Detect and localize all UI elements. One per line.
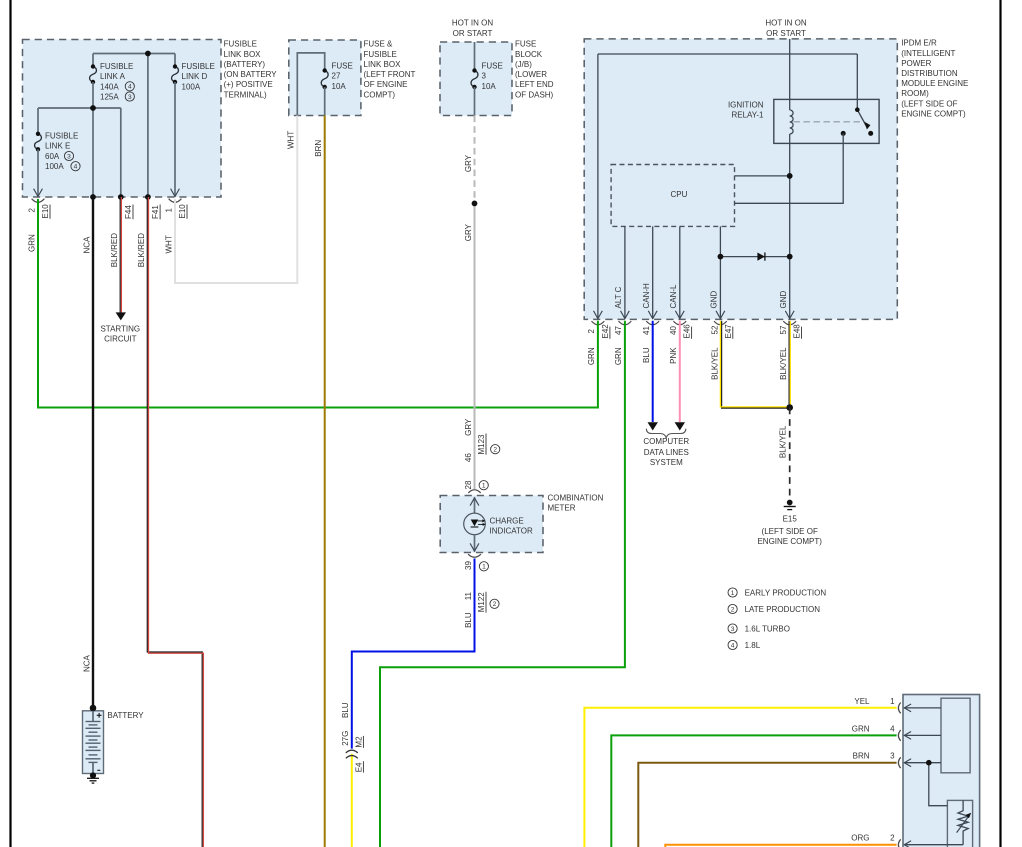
svg-text:BLU: BLU bbox=[464, 612, 473, 628]
svg-text:E10: E10 bbox=[178, 204, 187, 219]
svg-text:LATE PRODUCTION: LATE PRODUCTION bbox=[745, 605, 821, 614]
svg-text:4: 4 bbox=[128, 84, 132, 91]
svg-text:LINK A: LINK A bbox=[100, 72, 126, 81]
svg-text:4: 4 bbox=[890, 724, 895, 733]
svg-text:ENGINE COMPT): ENGINE COMPT) bbox=[901, 109, 966, 118]
svg-text:INDICATOR: INDICATOR bbox=[490, 527, 533, 536]
svg-text:BLU: BLU bbox=[341, 702, 350, 718]
svg-text:FUSIBLE: FUSIBLE bbox=[364, 50, 397, 59]
svg-text:39: 39 bbox=[464, 561, 473, 570]
svg-text:3: 3 bbox=[67, 153, 71, 160]
svg-text:TERMINAL): TERMINAL) bbox=[224, 90, 267, 99]
svg-text:DISTRIBUTION: DISTRIBUTION bbox=[901, 69, 958, 78]
svg-text:2: 2 bbox=[493, 447, 497, 454]
svg-text:FUSIBLE: FUSIBLE bbox=[100, 62, 133, 71]
svg-text:57: 57 bbox=[779, 325, 788, 334]
svg-text:40: 40 bbox=[669, 326, 678, 335]
svg-text:27: 27 bbox=[332, 72, 341, 81]
svg-text:SYSTEM: SYSTEM bbox=[650, 458, 683, 467]
svg-text:E47: E47 bbox=[724, 324, 733, 339]
svg-text:LINK BOX: LINK BOX bbox=[364, 60, 402, 69]
svg-text:100A: 100A bbox=[182, 82, 201, 91]
svg-text:GRY: GRY bbox=[464, 223, 473, 241]
svg-text:1: 1 bbox=[890, 697, 895, 706]
svg-text:10A: 10A bbox=[482, 82, 497, 91]
svg-text:ENGINE COMPT): ENGINE COMPT) bbox=[757, 537, 822, 546]
svg-text:CIRCUIT: CIRCUIT bbox=[104, 334, 137, 343]
svg-text:(INTELLIGENT: (INTELLIGENT bbox=[901, 49, 955, 58]
svg-text:CHARGE: CHARGE bbox=[490, 517, 524, 526]
svg-text:MODULE ENGINE: MODULE ENGINE bbox=[901, 79, 968, 88]
svg-text:(+) POSITIVE: (+) POSITIVE bbox=[224, 80, 273, 89]
svg-text:11: 11 bbox=[464, 591, 473, 600]
svg-text:3: 3 bbox=[128, 94, 132, 101]
svg-text:BRN: BRN bbox=[314, 140, 323, 157]
svg-text:COMPUTER: COMPUTER bbox=[643, 437, 689, 446]
svg-text:LINK D: LINK D bbox=[182, 72, 208, 81]
svg-text:E10: E10 bbox=[41, 204, 50, 219]
svg-text:1: 1 bbox=[164, 208, 173, 213]
svg-text:3: 3 bbox=[731, 626, 735, 633]
svg-text:BLK/YEL: BLK/YEL bbox=[710, 347, 719, 380]
svg-text:OF ENGINE: OF ENGINE bbox=[364, 80, 408, 89]
svg-text:10A: 10A bbox=[332, 82, 347, 91]
svg-text:BLOCK: BLOCK bbox=[515, 50, 543, 59]
svg-text:2: 2 bbox=[731, 606, 735, 613]
svg-text:GRN: GRN bbox=[587, 347, 596, 365]
svg-text:CPU: CPU bbox=[671, 190, 688, 199]
svg-text:OR START: OR START bbox=[766, 29, 806, 38]
svg-text:60A: 60A bbox=[45, 152, 60, 161]
svg-text:46: 46 bbox=[464, 453, 473, 462]
svg-text:2: 2 bbox=[890, 834, 895, 843]
svg-text:ROOM): ROOM) bbox=[901, 89, 929, 98]
svg-text:27G: 27G bbox=[341, 731, 350, 746]
svg-text:4: 4 bbox=[74, 164, 78, 171]
svg-text:(BATTERY): (BATTERY) bbox=[224, 60, 266, 69]
svg-text:GRY: GRY bbox=[464, 418, 473, 436]
svg-text:F44: F44 bbox=[124, 205, 133, 219]
svg-text:GRN: GRN bbox=[27, 234, 36, 252]
svg-text:E15: E15 bbox=[783, 515, 798, 524]
svg-text:1: 1 bbox=[731, 590, 735, 597]
svg-text:41: 41 bbox=[642, 326, 651, 335]
svg-text:1: 1 bbox=[482, 564, 486, 571]
svg-text:52: 52 bbox=[710, 325, 719, 334]
svg-text:BLU: BLU bbox=[642, 347, 651, 363]
svg-text:YEL: YEL bbox=[854, 697, 870, 706]
svg-text:BATTERY: BATTERY bbox=[107, 711, 144, 720]
svg-text:BLK/YEL: BLK/YEL bbox=[779, 347, 788, 380]
svg-text:100A: 100A bbox=[45, 162, 64, 171]
svg-text:(LEFT SIDE OF: (LEFT SIDE OF bbox=[901, 99, 957, 108]
svg-text:1.8L: 1.8L bbox=[745, 641, 761, 650]
svg-text:POWER: POWER bbox=[901, 59, 931, 68]
svg-text:GND: GND bbox=[710, 291, 719, 309]
svg-text:FUSIBLE: FUSIBLE bbox=[224, 40, 257, 49]
svg-text:METER: METER bbox=[548, 504, 576, 513]
svg-text:LINK BOX: LINK BOX bbox=[224, 50, 262, 59]
svg-text:NCA: NCA bbox=[82, 654, 91, 672]
svg-text:COMBINATION: COMBINATION bbox=[548, 494, 604, 503]
svg-text:BLK/RED: BLK/RED bbox=[110, 233, 119, 267]
svg-text:FUSIBLE: FUSIBLE bbox=[45, 131, 78, 140]
svg-text:1: 1 bbox=[482, 483, 486, 490]
svg-text:125A: 125A bbox=[100, 93, 119, 102]
svg-text:M123: M123 bbox=[477, 434, 486, 455]
svg-text:1.6L TURBO: 1.6L TURBO bbox=[745, 624, 790, 633]
svg-text:4: 4 bbox=[731, 642, 735, 649]
svg-text:BLK/YEL: BLK/YEL bbox=[778, 425, 787, 458]
svg-text:FUSIBLE: FUSIBLE bbox=[182, 62, 215, 71]
svg-text:3: 3 bbox=[482, 72, 487, 81]
svg-text:FUSE: FUSE bbox=[515, 40, 536, 49]
svg-text:(J/B): (J/B) bbox=[515, 60, 532, 69]
svg-text:M122: M122 bbox=[477, 592, 486, 613]
svg-text:OF DASH): OF DASH) bbox=[515, 90, 554, 99]
svg-text:E4: E4 bbox=[354, 762, 363, 772]
svg-text:2: 2 bbox=[587, 329, 596, 334]
svg-text:BRN: BRN bbox=[853, 752, 870, 761]
svg-text:E48: E48 bbox=[793, 324, 802, 339]
svg-text:ALT C: ALT C bbox=[614, 286, 623, 308]
svg-text:FUSE &: FUSE & bbox=[364, 40, 394, 49]
svg-text:47: 47 bbox=[614, 326, 623, 335]
svg-text:ORG: ORG bbox=[851, 834, 869, 843]
svg-text:STARTING: STARTING bbox=[100, 324, 140, 333]
svg-text:140A: 140A bbox=[100, 82, 119, 91]
svg-text:WHT: WHT bbox=[164, 235, 173, 253]
svg-text:E42: E42 bbox=[601, 324, 610, 339]
svg-text:28: 28 bbox=[464, 480, 473, 489]
svg-text:2: 2 bbox=[27, 208, 36, 213]
svg-text:GND: GND bbox=[779, 291, 788, 309]
svg-text:BLK/RED: BLK/RED bbox=[137, 233, 146, 267]
svg-text:NCA: NCA bbox=[82, 236, 91, 254]
svg-text:F41: F41 bbox=[151, 205, 160, 219]
svg-text:(LEFT FRONT: (LEFT FRONT bbox=[364, 70, 416, 79]
svg-text:HOT IN ON: HOT IN ON bbox=[452, 19, 493, 28]
svg-text:GRN: GRN bbox=[852, 724, 870, 733]
svg-text:M2: M2 bbox=[354, 736, 363, 748]
svg-text:IGNITION: IGNITION bbox=[728, 101, 764, 110]
svg-text:RELAY-1: RELAY-1 bbox=[731, 111, 764, 120]
svg-text:LINK E: LINK E bbox=[45, 142, 70, 151]
svg-text:E46: E46 bbox=[683, 324, 692, 339]
svg-text:(LOWER: (LOWER bbox=[515, 70, 547, 79]
svg-text:HOT IN ON: HOT IN ON bbox=[765, 19, 806, 28]
svg-text:LEFT END: LEFT END bbox=[515, 80, 554, 89]
svg-text:EARLY PRODUCTION: EARLY PRODUCTION bbox=[745, 588, 827, 597]
svg-text:3: 3 bbox=[890, 752, 895, 761]
svg-text:2: 2 bbox=[493, 601, 497, 608]
svg-text:IPDM E/R: IPDM E/R bbox=[901, 39, 937, 48]
svg-text:OR START: OR START bbox=[453, 29, 493, 38]
svg-text:(LEFT SIDE OF: (LEFT SIDE OF bbox=[762, 527, 818, 536]
svg-text:FUSE: FUSE bbox=[482, 62, 503, 71]
svg-text:WHT: WHT bbox=[287, 131, 296, 149]
svg-text:PNK: PNK bbox=[669, 347, 678, 364]
svg-text:DATA LINES: DATA LINES bbox=[644, 448, 689, 457]
svg-text:CAN-H: CAN-H bbox=[642, 283, 651, 309]
svg-text:(ON BATTERY: (ON BATTERY bbox=[224, 70, 278, 79]
svg-text:FUSE: FUSE bbox=[332, 62, 353, 71]
svg-text:CAN-L: CAN-L bbox=[669, 284, 678, 309]
svg-text:GRN: GRN bbox=[614, 347, 623, 365]
svg-text:GRY: GRY bbox=[464, 154, 473, 172]
svg-text:COMPT): COMPT) bbox=[364, 90, 396, 99]
